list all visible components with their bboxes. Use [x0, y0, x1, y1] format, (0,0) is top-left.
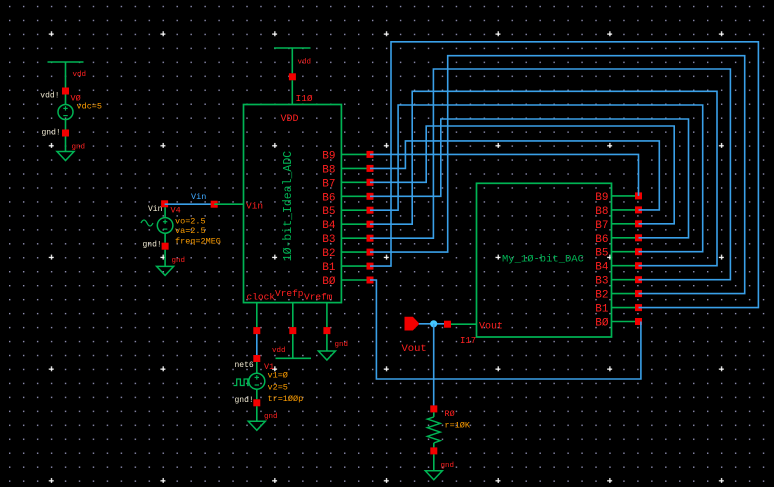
wire Vin blue — [165, 203, 215, 205]
wire ADC B9 stub — [341, 153, 370, 155]
svg-text:B7: B7 — [595, 220, 608, 232]
pin square ADC B8 — [367, 165, 374, 172]
svg-text:vdd: vdd — [272, 347, 286, 355]
svg-text:B5: B5 — [595, 248, 608, 260]
pin square ADC B7 — [367, 179, 374, 186]
pin square ADC VDD — [289, 73, 296, 80]
pin square Vrefm — [323, 327, 330, 334]
wire DAC B8 stub — [612, 209, 639, 211]
svg-text:r=1ØK: r=1ØK — [445, 421, 471, 431]
svg-text:Vrefp: Vrefp — [275, 288, 304, 299]
probe Vout — [405, 317, 419, 330]
svg-text:clock: clock — [247, 292, 276, 303]
pulse symbol V1 — [234, 379, 249, 386]
wire ADC B4 stub — [341, 223, 370, 225]
svg-text:vdd!: vdd! — [40, 92, 59, 101]
svg-text:gnd: gnd — [72, 144, 86, 152]
wire V4 plus to source — [164, 207, 166, 217]
pin square V0 plus — [62, 88, 69, 95]
pin square R0 top — [430, 405, 437, 412]
wire Vrefm stub — [326, 303, 328, 328]
svg-text:V4: V4 — [171, 206, 181, 216]
svg-text:B4: B4 — [595, 262, 609, 274]
wire net B4 — [370, 91, 717, 265]
wire Vrefp down — [292, 334, 294, 358]
svg-text:BØ: BØ — [322, 276, 336, 288]
pin square V4 minus — [162, 243, 169, 250]
svg-text:B1: B1 — [322, 262, 336, 274]
power vdd symbol (V0 branch) — [48, 61, 84, 63]
wire net B7 — [370, 126, 674, 224]
vpulse source V1 — [249, 373, 265, 389]
svg-text:B8: B8 — [595, 206, 608, 218]
wire ADC B0 stub — [341, 279, 370, 281]
svg-text:I1Ø: I1Ø — [296, 93, 313, 104]
wire V4 minus — [164, 233, 166, 243]
ground symbol (V1) — [248, 421, 265, 430]
svg-text:tr=1ØØp: tr=1ØØp — [268, 394, 304, 404]
svg-text:I17: I17 — [460, 336, 476, 346]
wire V0 minus — [65, 120, 67, 130]
svg-text:B6: B6 — [322, 192, 335, 204]
svg-text:gnd!: gnd! — [235, 396, 254, 405]
pin square DAC B4 — [635, 262, 642, 269]
pin square DAC B6 — [635, 234, 642, 241]
wire clock to V1 blue — [256, 334, 258, 355]
wire V1 plus to source — [256, 362, 258, 373]
wire ADC B1 stub — [341, 265, 370, 267]
ground symbol (R0) — [425, 471, 442, 480]
svg-text:B3: B3 — [322, 234, 335, 246]
svg-text:va=2.5: va=2.5 — [175, 226, 206, 236]
wire ADC Vin stub — [214, 203, 243, 205]
svg-text:B9: B9 — [322, 150, 335, 162]
pin square DAC B2 — [635, 290, 642, 297]
pin square DAC B0 — [635, 318, 642, 325]
pin square V4 plus — [161, 200, 168, 207]
pin square ADC B3 — [367, 235, 374, 242]
resistor R0 zigzag — [427, 417, 440, 443]
wire R0 top — [433, 412, 435, 417]
svg-text:gnd: gnd — [441, 462, 455, 470]
svg-text:v1=Ø: v1=Ø — [268, 371, 288, 381]
ground symbol (V0) — [57, 152, 74, 161]
svg-text:B4: B4 — [322, 220, 336, 232]
wire DAC B5 stub — [612, 251, 639, 253]
ground symbol (V4) — [157, 266, 174, 275]
wire DAC B7 stub — [612, 223, 639, 225]
svg-text:1Ø-bit_Ideal_ADC: 1Ø-bit_Ideal_ADC — [282, 151, 295, 262]
svg-text:B2: B2 — [322, 248, 335, 260]
wire net B1 — [370, 42, 758, 308]
wire V1 minus — [256, 389, 258, 399]
svg-text:v2=5: v2=5 — [268, 383, 288, 393]
svg-text:B7: B7 — [322, 178, 335, 190]
op block ADC I10 box — [244, 105, 342, 303]
wire DAC B6 stub — [612, 237, 639, 239]
pin square clock — [253, 327, 260, 334]
svg-text:gnd: gnd — [264, 413, 278, 421]
svg-text:Vin: Vin — [191, 192, 206, 202]
pin square ADC B0 — [367, 277, 374, 284]
wire R0 bottom — [433, 443, 435, 448]
pin square DAC Vout — [444, 321, 451, 328]
wire DAC B4 stub — [612, 265, 639, 267]
svg-text:B2: B2 — [595, 290, 608, 302]
svg-text:gnd!: gnd! — [143, 241, 162, 250]
svg-text:B9: B9 — [595, 192, 608, 204]
pin square DAC B8 — [635, 206, 642, 213]
wire clock stub — [256, 303, 258, 328]
svg-text:B1: B1 — [595, 304, 609, 316]
svg-text:gnd!: gnd! — [42, 129, 61, 138]
wire ADC B3 stub — [341, 237, 370, 239]
pin square ADC B6 — [367, 193, 374, 200]
power vdd symbol (Vrefp) — [276, 357, 312, 359]
wire ADC B7 stub — [341, 181, 370, 183]
wire DAC B9 stub — [612, 195, 639, 197]
svg-text:vdc=5: vdc=5 — [77, 102, 103, 112]
pin square DAC B9 — [635, 192, 642, 199]
pin square V1 minus — [253, 399, 260, 406]
ground symbol (Vrefm) — [318, 351, 335, 360]
wire ADC B2 stub — [341, 251, 370, 253]
svg-text:gnd: gnd — [335, 341, 349, 349]
svg-text:B3: B3 — [595, 276, 608, 288]
wire net B0 — [370, 280, 641, 379]
svg-text:Vout: Vout — [402, 343, 427, 355]
pin square ADC B2 — [367, 249, 374, 256]
pin square V0 minus — [62, 130, 69, 137]
wire DAC B0 stub — [612, 321, 639, 323]
pin square V1 plus (net6) — [253, 355, 260, 362]
pin square DAC B7 — [635, 220, 642, 227]
wire VDD to ADC box — [291, 80, 293, 104]
wire V0 plus to source — [65, 95, 67, 105]
wire net B5 — [370, 105, 703, 252]
svg-text:B5: B5 — [322, 206, 335, 218]
pin square ADC B9 — [367, 151, 374, 158]
op block DAC I17 box — [477, 183, 612, 337]
junction dot Vout — [430, 320, 437, 327]
pin square R0 bottom — [430, 447, 437, 454]
wire to gnd (R0) — [433, 454, 435, 470]
wire net B9 — [370, 154, 639, 196]
svg-text:VDD: VDD — [281, 114, 299, 125]
pin square ADC B4 — [367, 221, 374, 228]
svg-text:gnd: gnd — [172, 257, 186, 265]
pin square DAC B5 — [635, 248, 642, 255]
wire DAC Vout stub — [451, 323, 477, 325]
wire DAC B3 stub — [612, 279, 639, 281]
wire net B6 — [370, 119, 689, 238]
wire Vrefm down — [326, 334, 328, 351]
svg-text:Vin: Vin — [148, 205, 163, 214]
svg-text:BØ: BØ — [595, 318, 609, 330]
wire Vout to R0 — [433, 324, 435, 406]
svg-text:Vin: Vin — [246, 201, 263, 212]
svg-text:RØ: RØ — [445, 409, 455, 419]
svg-text:Vrefm: Vrefm — [304, 292, 333, 303]
wire net B8 — [370, 141, 659, 210]
wire DAC B1 stub — [612, 307, 639, 309]
wire to gnd (V1) — [256, 406, 258, 421]
wire Vrefp stub — [292, 303, 294, 328]
wire to gnd (V4) — [164, 250, 166, 267]
vsin source V4 — [157, 218, 173, 234]
pin square ADC Vin — [211, 201, 218, 208]
vdc source V0 — [58, 105, 73, 120]
power vdd symbol (ADC) — [274, 47, 311, 49]
wire DAC B2 stub — [612, 293, 639, 295]
sine symbol V4 — [141, 220, 153, 226]
svg-text:B6: B6 — [595, 234, 608, 246]
svg-text:vo=2.5: vo=2.5 — [175, 217, 206, 227]
svg-text:freq=2MEG: freq=2MEG — [175, 237, 221, 247]
svg-text:Vout: Vout — [479, 322, 503, 333]
pin square ADC B5 — [367, 207, 374, 214]
svg-text:My_1Ø-bit_DAC: My_1Ø-bit_DAC — [502, 254, 584, 266]
wire ADC B5 stub — [341, 209, 370, 211]
svg-text:vdd: vdd — [298, 59, 312, 67]
wire net B3 — [370, 69, 730, 280]
pin square DAC B3 — [635, 276, 642, 283]
svg-text:net6: net6 — [235, 361, 254, 370]
svg-text:B8: B8 — [322, 164, 335, 176]
pin square ADC B1 — [367, 263, 374, 270]
pin square Vrefp — [289, 327, 296, 334]
svg-text:vdd: vdd — [73, 71, 87, 79]
wire to gnd (V0) — [65, 137, 67, 152]
wire ADC B8 stub — [341, 167, 370, 169]
wire ADC B6 stub — [341, 195, 370, 197]
wire net B2 — [370, 56, 745, 294]
pin square DAC B1 — [635, 304, 642, 311]
wire Vout horizontal — [419, 323, 448, 325]
